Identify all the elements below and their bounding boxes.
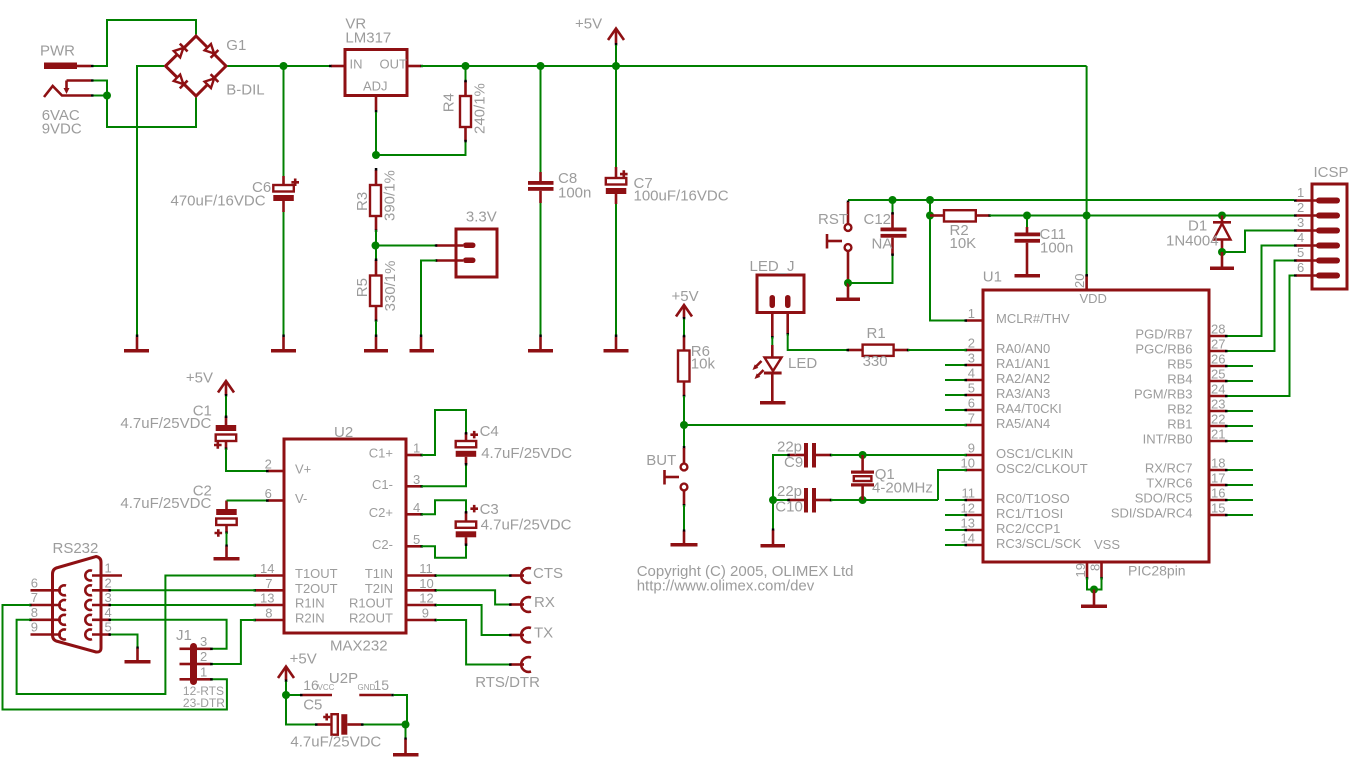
svg-text:PIC28pin: PIC28pin [1128,563,1186,579]
capacitor C1 (polarized 4.7uF/25VDC) [214,416,236,451]
wire C2 to ground [226,533,228,547]
svg-text:6: 6 [265,486,272,501]
diode D1 1N4004 [1213,216,1231,253]
wire T2IN to RX [436,590,511,604]
wire rail to C8 [540,66,542,172]
connector ICSP header [1312,164,1349,289]
node D1 top junction [1218,212,1226,220]
pin 5 RA3/AN3 [945,381,1050,401]
wire VR OUT to rail [421,65,1087,67]
svg-text:R1IN: R1IN [295,596,325,611]
supply +5V (main rail) [608,29,624,67]
svg-text:28: 28 [1211,322,1225,337]
pin 24 PGM/RB3 [1134,382,1228,402]
ICSP pin 4 [1294,230,1340,249]
pin 14 RC3/SCL/SCK [945,531,1082,551]
wire R3 to R5 junction [375,230,377,246]
pin 16 SDO/RC5 [1135,486,1253,506]
svg-text:R1OUT: R1OUT [349,596,393,611]
svg-text:15: 15 [1211,501,1225,516]
wire DB9 pin2 to T2OUT [111,589,256,591]
pin 25 RB4 [1167,367,1253,387]
switch RST [827,201,851,284]
ground (C9/C10) [761,529,786,548]
power pins U2P (16 VCC / 15 GND) [286,694,394,697]
wire jack sleeve to junction [94,95,108,97]
wire junction to BUT [683,425,685,448]
capacitor C12 NA [881,212,907,256]
connector PWR (DC jack) tip contact [44,63,94,70]
U2 pin 1 C1+ [369,441,423,461]
svg-text:SDO/RC5: SDO/RC5 [1135,491,1193,506]
svg-text:+5V: +5V [575,16,602,33]
svg-text:RB1: RB1 [1167,417,1192,432]
svg-text:NA: NA [872,236,893,253]
wire to C11 [1026,216,1028,228]
wire 3.3V pin2 to ground [421,261,436,336]
node BUT junction [680,421,688,429]
resistor R3 390/1% [370,168,381,232]
node R3/R5 junction [372,242,380,250]
RS232 pin 4 [85,605,111,625]
node R4 top junction on rail [462,62,470,70]
svg-text:4-20MHz: 4-20MHz [872,480,933,497]
pin 3 RA1/AN1 [945,351,1050,371]
wire D1 to ICSP pin3 [1222,231,1294,253]
connector 3.3V jumper [435,229,497,277]
node ADJ junction [372,151,380,159]
wire C8 to ground [540,203,542,336]
pin 15 SDI/SDA/RC4 [1111,501,1253,521]
wire DB9 pin5 to ground [111,635,138,649]
wire BUT to ground [683,505,685,531]
svg-text:+5V: +5V [672,288,699,305]
node C7 junction [612,62,620,70]
svg-text:11: 11 [419,561,433,576]
svg-text:RS232: RS232 [53,540,99,557]
svg-text:13: 13 [260,591,274,606]
U2 pin 6 V- [265,486,308,506]
wire R1OUT to TX [436,605,511,635]
RS232 pin 2 [85,575,111,595]
svg-text:11: 11 [962,486,976,501]
svg-text:RA1/AN1: RA1/AN1 [996,356,1050,371]
svg-text:G1: G1 [226,37,246,54]
RS232 pin 7 [29,590,66,610]
resistor R4 240/1% [460,80,471,143]
U2 pin 5 C2- [372,532,423,552]
svg-text:12: 12 [419,591,433,606]
wire U2P pin15 to C5 right / ground [394,695,407,725]
node C12 top junction on MCLR line [889,196,897,204]
svg-text:470uF/16VDC: 470uF/16VDC [171,192,266,209]
svg-text:RA4/T0CKI: RA4/T0CKI [996,401,1062,416]
wire R2IN to J1 pin2 [212,620,255,664]
svg-text:PGD/RB7: PGD/RB7 [1135,327,1192,342]
svg-text:4: 4 [413,500,420,515]
svg-text:25: 25 [1211,367,1225,382]
node VDD junction on +5V row [1083,212,1091,220]
wire C7 to ground [615,204,617,336]
svg-text:RA0/AN0: RA0/AN0 [996,341,1050,356]
node C10 left junction [769,496,777,504]
pin 13 RC2/CCP1 [945,516,1060,536]
svg-text:9: 9 [422,606,429,621]
svg-text:RB4: RB4 [1167,372,1192,387]
svg-text:C5: C5 [303,696,322,713]
svg-text:VSS: VSS [1094,537,1120,552]
wire C10 to OSC2 path [831,499,938,501]
svg-text:8: 8 [31,605,38,620]
node RST bottom junction [844,279,852,287]
svg-text:http://www.olimex.com/dev: http://www.olimex.com/dev [637,578,815,595]
U2 pin 9 R2OUT [349,606,437,626]
svg-text:1: 1 [1297,185,1304,200]
wire C6 to ground [283,212,285,336]
pin 6 RA4/T0CKI [945,396,1062,416]
svg-text:20: 20 [1072,274,1087,288]
svg-text:R5: R5 [354,278,371,297]
svg-text:PGC/RB6: PGC/RB6 [1135,342,1192,357]
ground (C5/U2P) [393,738,419,757]
svg-text:390/1%: 390/1% [382,170,399,221]
svg-text:7: 7 [265,576,272,591]
svg-text:100n: 100n [558,185,591,202]
svg-text:C4: C4 [480,423,499,440]
svg-text:8: 8 [1088,564,1103,571]
wire ICSP pin6 to PIC pin24 [1227,276,1294,397]
U2 pin 8 R2IN [254,606,325,626]
svg-text:9: 9 [968,441,975,456]
wire OSC2 riser to PIC pin10 [938,470,967,500]
supply +5V (R6) [676,305,692,336]
node VSS junction [1090,586,1098,594]
U2 pin 3 C1- [372,472,423,492]
svg-text:TX: TX [534,624,553,641]
node C8 junction [537,62,545,70]
svg-text:R4: R4 [440,93,457,112]
diode G1 bottom-right (cathode to right corner) [204,74,218,88]
supply +5V (U2P) [278,667,294,696]
svg-text:V-: V- [295,491,307,506]
wire rail corner down to VDD column [1086,66,1088,216]
connector RX pad [509,597,531,612]
svg-text:MAX232: MAX232 [330,638,388,655]
U2 pin 11 T1IN [365,561,437,581]
pin 2 RA0/AN0 [965,336,1051,356]
svg-text:3: 3 [105,590,112,605]
svg-text:22: 22 [1211,412,1225,427]
wire DB9 pin4 to J1 pin3 [111,620,227,649]
capacitor C11 100n [1015,227,1041,278]
wire C5 junction to ground [405,725,407,740]
U2 pin 2 V+ [265,457,312,477]
svg-text:SDI/SDA/RC4: SDI/SDA/RC4 [1111,506,1193,521]
svg-text:R2OUT: R2OUT [349,611,393,626]
capacitor C6 (polarized 470uF/16VDC) [273,176,299,212]
svg-text:RX/RC7: RX/RC7 [1145,461,1193,476]
svg-text:U2: U2 [334,424,353,441]
svg-text:R2IN: R2IN [295,611,325,626]
svg-text:INT/RB0: INT/RB0 [1143,432,1193,447]
svg-text:22p: 22p [777,438,802,455]
svg-text:BUT: BUT [646,452,676,469]
crystal Q1 4-20MHz [851,455,874,500]
svg-text:330/1%: 330/1% [382,261,399,312]
pin 23 RB2 [1167,397,1253,417]
svg-text:RA3/AN3: RA3/AN3 [996,386,1050,401]
RS232 pin 9 [31,620,67,640]
resistor R5 330/1% [370,246,382,323]
connector PWR sleeve/spring contact [44,79,94,97]
svg-text:V+: V+ [295,462,311,477]
ICSP pin 1 [1294,185,1340,204]
ground (VSS) [1081,590,1107,609]
svg-text:4.7uF/25VDC: 4.7uF/25VDC [120,415,211,432]
svg-text:4.7uF/25VDC: 4.7uF/25VDC [290,734,381,751]
RS232 pin 1 [85,561,122,581]
svg-text:RA5/AN4: RA5/AN4 [996,416,1050,431]
ground (3.3V) [410,335,435,353]
svg-text:16: 16 [1211,486,1225,501]
svg-text:4: 4 [968,366,975,381]
svg-text:RC2/CCP1: RC2/CCP1 [996,521,1060,536]
svg-text:PWR: PWR [40,43,75,60]
svg-text:C1+: C1+ [369,446,393,461]
ground (C2) [214,545,240,561]
ground (BUT) [671,530,698,547]
wire rail to R4 [465,66,467,81]
svg-text:2: 2 [105,575,112,590]
pin 26 RB5 [1167,352,1253,372]
U2 pin 10 T2IN [365,576,437,596]
svg-text:5: 5 [1297,245,1304,260]
wire C6 junction down [283,66,285,176]
ICSP pin 2 [1294,200,1340,219]
svg-text:3: 3 [413,472,420,487]
U2 pin 4 C2+ [369,500,423,520]
ground (R5) [364,335,388,353]
svg-text:OSC1/CLKIN: OSC1/CLKIN [996,446,1073,461]
svg-text:U2P: U2P [329,670,358,687]
pin 10 OSC2/CLKOUT [961,456,1088,476]
RS232 pin 8 [29,605,66,625]
svg-text:10k: 10k [691,356,716,373]
wire junction to 3.3V regulator pin1 [376,245,437,247]
wire VSS pins join [1087,578,1102,590]
svg-text:RB2: RB2 [1167,402,1192,417]
svg-text:LED: LED [788,355,817,372]
svg-text:27: 27 [1211,337,1225,352]
capacitor C8 100n [528,172,554,203]
wire jack pin2 to junction [94,81,108,96]
svg-text:13: 13 [961,516,975,531]
wire bridge right to VR input / main +V rail [228,65,332,67]
wire R6 to BUT junction [683,396,685,425]
pin 19 VSS [1073,562,1088,580]
voltage regulator VR LM317 [329,50,423,113]
wire VR ADJ down to R3 junction [375,112,377,155]
svg-text:RC1/T1OSI: RC1/T1OSI [996,506,1063,521]
wire C1 to U2 pin2 V+ [226,449,268,472]
wire C10 ground column [772,500,774,530]
connector RS232 DB9 body [53,540,102,652]
svg-text:RTS/DTR: RTS/DTR [475,674,540,691]
svg-text:T2IN: T2IN [365,581,393,596]
capacitor C7 (polarized 100uF/16VDC) [606,167,628,204]
svg-text:4: 4 [105,605,112,620]
diode G1 top-left (cathode to top corner) [173,44,187,58]
ICSP pin 6 [1294,260,1340,279]
ICSP pin 3 [1294,215,1340,234]
diode G1 bottom-left (cathode to bottom corner) [173,74,187,88]
svg-text:14: 14 [260,561,274,576]
U2 pin 13 R1IN [254,591,325,611]
node R2/MCLR junction [926,196,934,204]
svg-text:ADJ: ADJ [363,79,388,94]
U2 pin 7 T2OUT [254,576,338,596]
IC U2 MAX232 body [284,424,406,655]
svg-text:2: 2 [200,649,207,664]
svg-text:3.3V: 3.3V [466,209,497,226]
svg-text:T1IN: T1IN [365,566,393,581]
svg-text:4.7uF/25VDC: 4.7uF/25VDC [481,517,572,534]
svg-text:OSC2/CLKOUT: OSC2/CLKOUT [996,461,1088,476]
svg-text:R1: R1 [867,325,886,342]
capacitor C5 (polarized 4.7uF/25VDC) [315,714,406,735]
ground (RST) [836,283,860,301]
RS232 pin 5 [85,620,111,640]
node OSC1 junction [859,451,867,459]
svg-text:240/1%: 240/1% [472,83,489,134]
connector RTS/DTR pad [509,657,531,672]
diode G1 top-right (cathode to right corner) [204,43,218,57]
wire ADJ junction to R4 bottom [376,141,466,155]
pin 7 RA5/AN4 [965,411,1051,431]
wire C9 to OSC1 junction and PIC pin9 [831,454,967,456]
ground (LED) [760,401,786,405]
wire R5 to ground [375,321,377,336]
svg-text:1: 1 [968,306,975,321]
connector LED_J [757,275,804,339]
supply +5V (C1) [218,381,234,417]
pin 12 RC1/T1OSI [945,501,1063,521]
bridge rectifier G1 diamond [166,36,227,96]
svg-text:3: 3 [968,351,975,366]
connector TX pad [509,628,531,643]
svg-text:100uF/16VDC: 100uF/16VDC [634,188,729,205]
node C6 junction [280,62,288,70]
svg-text:C12: C12 [864,211,892,228]
svg-text:10: 10 [419,576,433,591]
wire R1 to PIC pin2 RA0 [908,349,967,351]
resistor R1 330 [847,345,910,356]
svg-text:B-DIL: B-DIL [226,82,264,99]
RS232 pin 6 [31,575,67,595]
switch BUT [665,446,688,507]
pin 20 VDD [1072,274,1088,290]
svg-text:LM317: LM317 [345,30,391,47]
pin 9 OSC1/CLKIN [965,441,1074,461]
svg-text:6: 6 [31,575,38,590]
capacitor C9 22p [787,443,832,468]
wire MCLR line to C12 [892,200,894,213]
svg-text:5: 5 [413,532,420,547]
svg-text:U1: U1 [983,269,1002,286]
svg-text:OUT: OUT [380,57,408,72]
svg-text:C10: C10 [775,499,803,516]
pin 8 VSS [1088,562,1103,580]
ground (bridge minus) [124,335,149,353]
ground (C7) [604,335,629,353]
ground (C6) [271,335,296,353]
svg-text:7: 7 [968,411,975,426]
wire C9 left to ground column [773,455,789,500]
wire LED_J pin2 to R1 [788,334,848,350]
node Q1 bottom junction [859,496,867,504]
svg-text:4: 4 [1297,230,1304,245]
svg-text:4.7uF/25VDC: 4.7uF/25VDC [120,495,211,512]
resistor R2 10K [930,210,991,221]
svg-text:VDD: VDD [1080,291,1107,306]
svg-text:C3: C3 [480,501,499,518]
svg-text:IN: IN [350,57,363,72]
wire RST junction to C12 bottom [848,255,893,283]
wire +5V row (R2 to ICSP pin2) [990,215,1295,217]
LED light arrows [755,361,762,368]
wire T1OUT loop to DB9 pin8 [17,576,256,695]
svg-text:15: 15 [374,677,390,693]
svg-text:R3: R3 [354,192,371,211]
wire MCLR line (RST to ICSP pin1) [848,199,1294,201]
svg-text:24: 24 [1211,382,1225,397]
wire VDD column down to pin 20 [1086,216,1088,276]
pin 4 RA2/AN2 [945,366,1050,386]
svg-text:RC3/SCL/SCK: RC3/SCL/SCK [996,536,1082,551]
U2 pin 12 R1OUT [349,591,437,611]
svg-text:RA2/AN2: RA2/AN2 [996,371,1050,386]
svg-text:RB5: RB5 [1167,357,1192,372]
svg-text:7: 7 [31,590,38,605]
capacitor C3 (polarized 4.7uF/25VDC) [422,500,479,557]
node D1 bottom junction [1218,248,1226,256]
node C5 right junction [402,721,410,729]
svg-text:RX: RX [534,594,555,611]
svg-text:2: 2 [968,336,975,351]
svg-text:1N4004: 1N4004 [1166,233,1219,250]
svg-text:330: 330 [863,353,888,370]
pin 22 RB1 [1167,412,1253,432]
node R2 left junction [926,212,934,220]
svg-text:14: 14 [961,531,975,546]
svg-text:LED_J: LED_J [750,258,795,275]
pin 21 INT/RB0 [1143,427,1253,447]
capacitor C2 (polarized 4.7uF/25VDC) [215,501,237,537]
svg-text:10K: 10K [950,235,977,252]
wire R2OUT to RTS/DTR [436,620,511,665]
wire ICSP pin4 to PIC pin28 [1227,246,1294,337]
svg-text:ICSP: ICSP [1314,164,1349,181]
svg-text:6: 6 [1297,260,1304,275]
svg-text:3: 3 [200,634,207,649]
svg-text:17: 17 [1211,471,1225,486]
svg-text:19: 19 [1073,563,1088,577]
pin 27 PGC/RB6 [1135,337,1227,357]
wire DB9 pin3 to R1IN [111,604,256,606]
svg-text:21: 21 [1211,427,1225,442]
capacitor C10 22p [787,488,832,513]
svg-text:C1-: C1- [372,477,393,492]
